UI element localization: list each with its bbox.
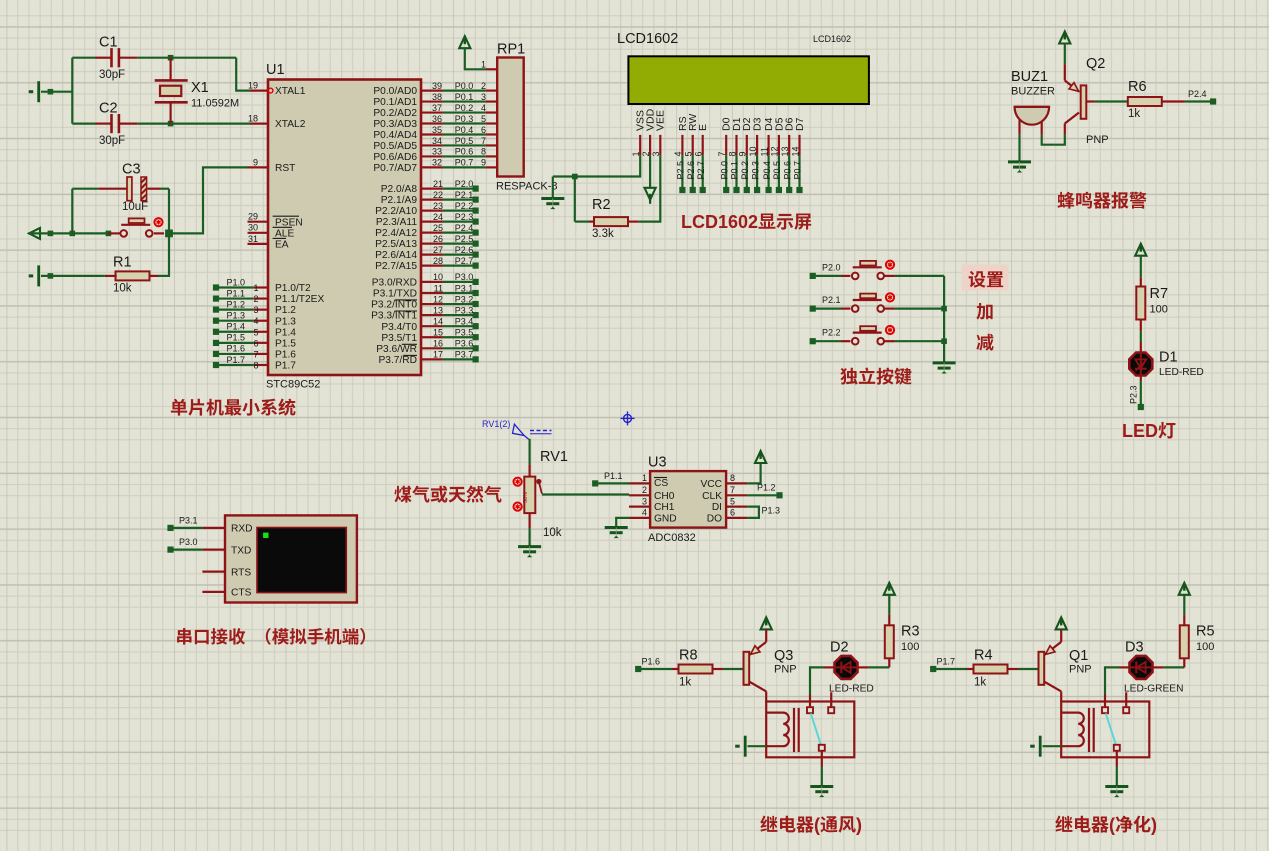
- svg-text:CS: CS: [654, 478, 668, 489]
- svg-text:13: 13: [780, 146, 790, 156]
- svg-text:P0.5/AD5: P0.5/AD5: [373, 141, 417, 152]
- probe arrow: [513, 424, 525, 435]
- svg-text:P0.1: P0.1: [730, 161, 740, 180]
- svg-text:13: 13: [433, 305, 443, 315]
- relay contact NO: [828, 707, 834, 713]
- svg-text:10k: 10k: [543, 527, 562, 539]
- svg-text:): ): [856, 815, 862, 835]
- svg-text:D2: D2: [830, 640, 849, 656]
- relay core lines: [793, 708, 795, 752]
- power arrow (U3): [755, 451, 766, 463]
- svg-text:P1.2: P1.2: [275, 305, 296, 316]
- svg-text:1k: 1k: [974, 677, 986, 689]
- svg-text:P3.0: P3.0: [455, 272, 474, 282]
- svg-text:38: 38: [432, 92, 442, 102]
- svg-text:RP1: RP1: [497, 42, 525, 58]
- LCD control pins RS RW E terminals: [681, 155, 683, 190]
- svg-text:8: 8: [730, 473, 735, 483]
- svg-text:D7: D7: [794, 117, 806, 131]
- svg-text:33: 33: [432, 147, 442, 157]
- svg-text:3.3k: 3.3k: [592, 228, 614, 240]
- ground bar (relay coil): [1030, 736, 1040, 757]
- svg-text:36: 36: [432, 114, 442, 124]
- relay contact common: [1102, 707, 1108, 713]
- svg-text:LED-GREEN: LED-GREEN: [1124, 684, 1183, 695]
- svg-text:10uF: 10uF: [122, 201, 148, 213]
- crystal X1: [170, 58, 172, 81]
- svg-text:1k: 1k: [679, 677, 691, 689]
- capacitor C3 (electrolytic): [71, 189, 73, 234]
- svg-text:P2.5/A13: P2.5/A13: [375, 239, 417, 250]
- svg-text:P0.3: P0.3: [750, 161, 760, 180]
- power arrow (RP1): [459, 36, 470, 48]
- svg-text:P1.1: P1.1: [604, 471, 623, 481]
- svg-text:P0.3: P0.3: [455, 114, 474, 124]
- svg-text:P2.5: P2.5: [676, 161, 686, 180]
- wire R7 to D1: [1140, 319, 1142, 331]
- power arrow (Q3): [761, 617, 772, 629]
- svg-text:P1.7: P1.7: [226, 355, 245, 365]
- wire relay arm to ground: [821, 751, 823, 767]
- svg-text:E: E: [697, 124, 709, 131]
- LED D3 LED-GREEN: [1130, 656, 1153, 679]
- svg-text:3: 3: [642, 496, 647, 506]
- svg-text:P2.3/A11: P2.3/A11: [376, 217, 417, 228]
- svg-text:EA: EA: [275, 240, 289, 251]
- svg-text:R7: R7: [1150, 286, 1169, 302]
- svg-text:8: 8: [254, 360, 259, 370]
- wire button 1 to bus: [895, 275, 944, 277]
- U3 CLK to P1.2 terminal: [747, 494, 779, 496]
- svg-text:XTAL2: XTAL2: [275, 119, 306, 130]
- svg-text:(: (: [1109, 815, 1115, 835]
- svg-text:C3: C3: [122, 162, 141, 178]
- svg-text:30: 30: [248, 223, 258, 233]
- svg-text:P1.0: P1.0: [226, 277, 245, 287]
- svg-text:P2.2/A10: P2.2/A10: [375, 206, 417, 217]
- svg-text:LCD1602: LCD1602: [813, 34, 851, 44]
- interactive markers RV1: [514, 478, 522, 486]
- wire reset row: [28, 232, 108, 234]
- relay switch arm: [1106, 713, 1116, 744]
- LCD1602 display: [628, 56, 869, 104]
- svg-text:P0.2: P0.2: [740, 161, 750, 180]
- svg-text:P3.5/T1: P3.5/T1: [381, 333, 417, 344]
- svg-text:PNP: PNP: [774, 664, 797, 676]
- label serial receive: [177, 628, 191, 644]
- svg-text:P0.5: P0.5: [772, 161, 782, 180]
- terminal P2.1: [810, 306, 816, 312]
- U1 pins PSEN ALE EA: [248, 221, 269, 223]
- svg-text:DO: DO: [707, 514, 722, 525]
- svg-text:P0.0: P0.0: [719, 161, 729, 180]
- svg-text:STC89C52: STC89C52: [266, 379, 320, 391]
- svg-text:R6: R6: [1128, 79, 1147, 95]
- wire R2 to VSS net: [574, 177, 576, 222]
- svg-text:P2.0: P2.0: [455, 179, 474, 189]
- power arrow (R3): [884, 583, 895, 595]
- svg-text:34: 34: [432, 136, 442, 146]
- label gas: [394, 486, 411, 503]
- svg-text:P2.5: P2.5: [455, 234, 474, 244]
- LCD VEE wire to R2: [639, 155, 661, 222]
- wire to button 2: [813, 308, 841, 310]
- resistor R3 100: [885, 625, 894, 658]
- LED D1 LED-RED: [1129, 353, 1152, 376]
- svg-text:P0.4: P0.4: [455, 125, 474, 135]
- svg-text:RTS: RTS: [231, 567, 251, 578]
- svg-text:P3.6/WR: P3.6/WR: [376, 344, 417, 355]
- svg-text:6: 6: [730, 508, 735, 518]
- resistor R1 10k: [148, 275, 158, 277]
- svg-text:D1: D1: [1159, 350, 1178, 366]
- svg-text:P1.7: P1.7: [275, 361, 296, 372]
- wire probe to RV1: [528, 439, 530, 465]
- wire relay arm to ground: [1116, 751, 1118, 767]
- U1 pins P2.0-P2.7 with terminals: [421, 188, 443, 190]
- svg-text:CLK: CLK: [702, 491, 722, 502]
- svg-text:30pF: 30pF: [99, 69, 125, 81]
- wire D3 to R5: [1153, 666, 1164, 668]
- ground bar (relay coil): [735, 736, 745, 757]
- ground (buzzer): [1008, 162, 1031, 173]
- svg-text:P1.6: P1.6: [226, 344, 245, 354]
- svg-text:P2.4: P2.4: [1188, 89, 1207, 99]
- svg-text:31: 31: [248, 234, 258, 244]
- svg-text:P2.6: P2.6: [686, 161, 696, 180]
- svg-text:30pF: 30pF: [99, 135, 125, 147]
- svg-text:P1.6: P1.6: [275, 350, 296, 361]
- svg-text:6: 6: [254, 338, 259, 348]
- svg-text:C1: C1: [99, 35, 118, 51]
- resistor pack RP1: [497, 58, 524, 177]
- svg-text:LED: LED: [1122, 421, 1158, 441]
- wire D2 to R3: [858, 666, 869, 668]
- svg-text:10k: 10k: [113, 283, 132, 295]
- svg-text:P1.1: P1.1: [226, 288, 245, 298]
- capacitor C2: [72, 122, 95, 124]
- svg-text:5: 5: [730, 496, 735, 506]
- wire contact to D2: [809, 695, 811, 708]
- svg-text:VCC: VCC: [700, 479, 722, 490]
- label minus: [976, 334, 993, 351]
- svg-text:7: 7: [730, 485, 735, 495]
- svg-text:P1.0/T2: P1.0/T2: [275, 283, 311, 294]
- svg-text:P3.5: P3.5: [455, 328, 474, 338]
- svg-text:Q1: Q1: [1069, 648, 1088, 664]
- svg-text:P3.2: P3.2: [455, 294, 474, 304]
- wire R6 to P2.4 terminal: [1185, 100, 1213, 102]
- svg-text:RV1(2): RV1(2): [482, 419, 510, 429]
- input arrow (reset net): [29, 228, 40, 239]
- svg-text:D3: D3: [752, 117, 764, 131]
- wire power to R7: [1140, 256, 1142, 278]
- svg-text:X1: X1: [191, 80, 209, 96]
- svg-text:TXD: TXD: [231, 545, 251, 556]
- ground (relay arm): [1105, 787, 1128, 798]
- svg-text:P0.4/AD4: P0.4/AD4: [373, 130, 417, 141]
- virtual terminal box: [225, 515, 357, 602]
- svg-text:100: 100: [1196, 641, 1214, 653]
- svg-text:P2.3: P2.3: [1129, 385, 1139, 404]
- wire RV1 bottom to ground: [528, 513, 530, 528]
- ground (U3): [605, 528, 628, 539]
- wire power to RP1 pin1: [465, 48, 486, 69]
- svg-text:14: 14: [790, 146, 800, 156]
- svg-text:(: (: [814, 815, 820, 835]
- relay switch arm: [811, 713, 821, 744]
- terminal P2.2: [810, 338, 816, 344]
- svg-text:P1.7: P1.7: [937, 657, 956, 667]
- ground bar (R1): [29, 265, 39, 286]
- svg-text:4: 4: [254, 316, 259, 326]
- svg-text:39: 39: [432, 81, 442, 91]
- ground (RV1): [518, 547, 541, 558]
- svg-text:27: 27: [433, 245, 443, 255]
- svg-text:7: 7: [254, 349, 259, 359]
- svg-text:P0.0: P0.0: [455, 81, 474, 91]
- power arrow (buzzer): [1059, 32, 1070, 44]
- svg-text:8: 8: [481, 147, 486, 157]
- svg-text:C2: C2: [99, 101, 118, 117]
- svg-text:): ): [1151, 815, 1157, 835]
- wire to R4: [933, 668, 967, 670]
- buzzer BUZ1: [1015, 106, 1050, 108]
- svg-text:RV1: RV1: [540, 449, 568, 465]
- label relay 继电器(通风): [760, 816, 777, 832]
- svg-text:P2.2: P2.2: [455, 201, 474, 211]
- relay contact common: [807, 707, 813, 713]
- svg-text:P0.7/AD7: P0.7/AD7: [373, 163, 417, 174]
- label independent keys: [840, 368, 857, 385]
- svg-text:P1.3: P1.3: [275, 316, 296, 327]
- U3 pin CLK: [726, 494, 747, 496]
- wire to R8: [638, 668, 672, 670]
- wire power to Q2 emitter: [1064, 44, 1066, 65]
- svg-text:P3.6: P3.6: [455, 339, 474, 349]
- svg-text:P3.3/INT1: P3.3/INT1: [371, 311, 417, 322]
- capacitor C1: [72, 57, 95, 59]
- svg-text:P3.3: P3.3: [455, 305, 474, 315]
- wire Q3 collector to relay: [765, 691, 767, 702]
- wire C1 to XTAL1: [138, 57, 237, 59]
- svg-text:P1.4: P1.4: [275, 327, 296, 338]
- U1 pin XTAL1: [250, 89, 268, 91]
- svg-text:BUZZER: BUZZER: [1011, 86, 1055, 98]
- U3 pin CS: [629, 482, 650, 484]
- transistor Q1 PNP: [1039, 652, 1045, 685]
- svg-text:37: 37: [432, 103, 442, 113]
- svg-text:P1.3: P1.3: [762, 506, 781, 516]
- terminal cursor: [263, 533, 268, 538]
- push button 3: [852, 326, 884, 344]
- svg-text:P3.1: P3.1: [455, 283, 474, 293]
- svg-text:P0.0/AD0: P0.0/AD0: [373, 86, 417, 97]
- svg-text:6: 6: [481, 125, 486, 135]
- U1 pins P1.0-P1.7 with terminals: [254, 286, 268, 288]
- terminal pin CTS: [202, 591, 225, 593]
- svg-text:9: 9: [253, 157, 258, 167]
- svg-text:P1.3: P1.3: [226, 311, 245, 321]
- svg-text:22: 22: [433, 190, 443, 200]
- svg-text:2: 2: [642, 485, 647, 495]
- svg-text:P0.7: P0.7: [793, 161, 803, 180]
- terminal P1.1 to CS: [592, 480, 598, 486]
- svg-text:P2.6/A14: P2.6/A14: [375, 250, 417, 261]
- svg-text:3: 3: [481, 92, 486, 102]
- resistor R8 1k: [679, 665, 713, 674]
- power arrow (Q1): [1056, 617, 1067, 629]
- svg-text:32: 32: [432, 158, 442, 168]
- U3 pin GND: [629, 517, 650, 519]
- button ground bus: [943, 276, 945, 363]
- svg-text:LED-RED: LED-RED: [1159, 367, 1204, 378]
- potentiometer RV1 10k: [524, 477, 535, 513]
- svg-text:19: 19: [248, 81, 258, 91]
- resistor R7 100: [1136, 287, 1145, 320]
- svg-text:5: 5: [481, 114, 486, 124]
- U3 pin DI: [726, 506, 747, 508]
- svg-text:Q3: Q3: [774, 648, 793, 664]
- svg-text:LCD1602: LCD1602: [617, 31, 678, 47]
- wire to button 1: [813, 275, 841, 277]
- svg-text:P0.7: P0.7: [455, 158, 474, 168]
- svg-text:1: 1: [481, 59, 486, 69]
- svg-text:50%: 50%: [523, 492, 529, 503]
- svg-text:15: 15: [433, 328, 443, 338]
- svg-text:P0.1/AD1: P0.1/AD1: [373, 97, 417, 108]
- svg-text:CH1: CH1: [654, 502, 675, 513]
- svg-text:2: 2: [481, 81, 486, 91]
- microcontroller U1 STC89C52: [268, 80, 421, 376]
- svg-text:P1.5: P1.5: [226, 333, 245, 343]
- svg-text:29: 29: [248, 212, 258, 222]
- wire RV1 wiper to U3 CH0: [542, 493, 629, 495]
- wire button to RST: [169, 167, 248, 233]
- label set: [962, 265, 1009, 291]
- wire D1 to P2.3 terminal: [1140, 376, 1142, 381]
- wire Q1 collector to relay: [1060, 691, 1062, 702]
- svg-text:P0.2: P0.2: [455, 103, 474, 113]
- LCD data pins D0-D7 terminals: [725, 155, 727, 190]
- relay coil box (继电器(净化)): [1061, 702, 1149, 758]
- svg-text:P3.1/TXD: P3.1/TXD: [373, 289, 417, 300]
- U3 pin DO: [726, 517, 747, 519]
- U1 pin XTAL2: [250, 122, 268, 124]
- svg-text:P1.5: P1.5: [275, 338, 296, 349]
- svg-text:LCD1602: LCD1602: [681, 212, 758, 232]
- svg-text:10: 10: [748, 146, 758, 156]
- svg-text:1k: 1k: [1128, 108, 1140, 120]
- svg-text:4: 4: [642, 508, 647, 518]
- svg-text:14: 14: [433, 316, 443, 326]
- svg-text:11: 11: [434, 283, 443, 293]
- wire ground to crystal loop: [41, 91, 72, 93]
- svg-text:P0.4: P0.4: [762, 161, 772, 180]
- svg-text:P2.6: P2.6: [455, 245, 474, 255]
- wire junction to R1: [158, 233, 169, 276]
- svg-text:P2.0: P2.0: [822, 262, 841, 272]
- origin marker: [621, 411, 635, 425]
- svg-text:ADC0832: ADC0832: [648, 532, 696, 544]
- svg-text:R5: R5: [1196, 624, 1215, 640]
- svg-text:P2.1: P2.1: [455, 190, 474, 200]
- U3 pin VCC: [726, 482, 747, 484]
- terminal P2.0: [810, 273, 816, 279]
- svg-text:11.0592M: 11.0592M: [191, 98, 239, 110]
- label buzzer alarm: [1058, 192, 1075, 209]
- svg-text:7: 7: [481, 136, 486, 146]
- svg-text:PNP: PNP: [1069, 664, 1092, 676]
- push button (reset): [120, 218, 152, 236]
- wire C2 to XTAL2: [138, 122, 250, 124]
- svg-text:28: 28: [433, 256, 443, 266]
- transistor Q3 PNP: [744, 652, 750, 685]
- power arrow (R5): [1179, 583, 1190, 595]
- svg-text:5: 5: [254, 327, 259, 337]
- label relay 继电器(净化): [1055, 816, 1072, 832]
- svg-text:12: 12: [433, 294, 443, 304]
- LED D2 LED-RED: [835, 656, 858, 679]
- svg-text:P2.4/A12: P2.4/A12: [375, 228, 417, 239]
- svg-text:35: 35: [432, 125, 442, 135]
- svg-text:11: 11: [759, 147, 769, 156]
- svg-text:P0.6: P0.6: [455, 147, 474, 157]
- svg-text:P0.5: P0.5: [455, 136, 474, 146]
- svg-text:P0.2/AD2: P0.2/AD2: [373, 108, 417, 119]
- svg-text:D3: D3: [1125, 640, 1144, 656]
- svg-text:GND: GND: [654, 514, 677, 525]
- relay contact NO: [1123, 707, 1129, 713]
- svg-text:10: 10: [433, 272, 443, 282]
- svg-text:VEE: VEE: [655, 110, 667, 131]
- svg-text:P1.2: P1.2: [757, 483, 776, 493]
- svg-text:P3.7/RD: P3.7/RD: [378, 355, 417, 366]
- svg-text:P3.7: P3.7: [455, 350, 474, 360]
- svg-text:24: 24: [433, 212, 443, 222]
- svg-text:3: 3: [254, 305, 259, 315]
- svg-text:R3: R3: [901, 624, 920, 640]
- relay core lines: [1088, 708, 1090, 752]
- svg-text:P2.7: P2.7: [696, 161, 706, 180]
- wire buzzer to ground: [1018, 135, 1020, 162]
- wire button 2 to bus: [895, 308, 944, 310]
- U3 VCC to power: [747, 463, 761, 483]
- svg-text:4: 4: [481, 103, 486, 113]
- svg-text:P2.7: P2.7: [455, 256, 474, 266]
- svg-text:U1: U1: [266, 62, 285, 78]
- svg-text:P1.6: P1.6: [642, 657, 661, 667]
- U1 pins P3.0-P3.7 with terminals: [421, 281, 443, 283]
- LCD VDD wire to power: [649, 155, 651, 188]
- resistor R6 1k: [1128, 97, 1162, 106]
- resistor R5 100: [1180, 625, 1189, 658]
- svg-text:26: 26: [433, 234, 443, 244]
- svg-text:CH0: CH0: [654, 491, 675, 502]
- svg-text:PSEN: PSEN: [275, 217, 303, 228]
- U1 pin RST: [248, 166, 269, 168]
- svg-text:PNP: PNP: [1086, 134, 1109, 146]
- svg-text:100: 100: [901, 641, 919, 653]
- U3 GND wire to ground: [616, 518, 629, 527]
- svg-text:R4: R4: [974, 648, 993, 664]
- svg-text:P1.1/T2EX: P1.1/T2EX: [275, 294, 324, 305]
- LCD pin stubs and labels: [639, 135, 641, 155]
- push button 2: [852, 294, 884, 312]
- svg-text:U3: U3: [648, 455, 667, 471]
- power arrow (D1): [1135, 244, 1146, 256]
- svg-text:RXD: RXD: [231, 524, 253, 535]
